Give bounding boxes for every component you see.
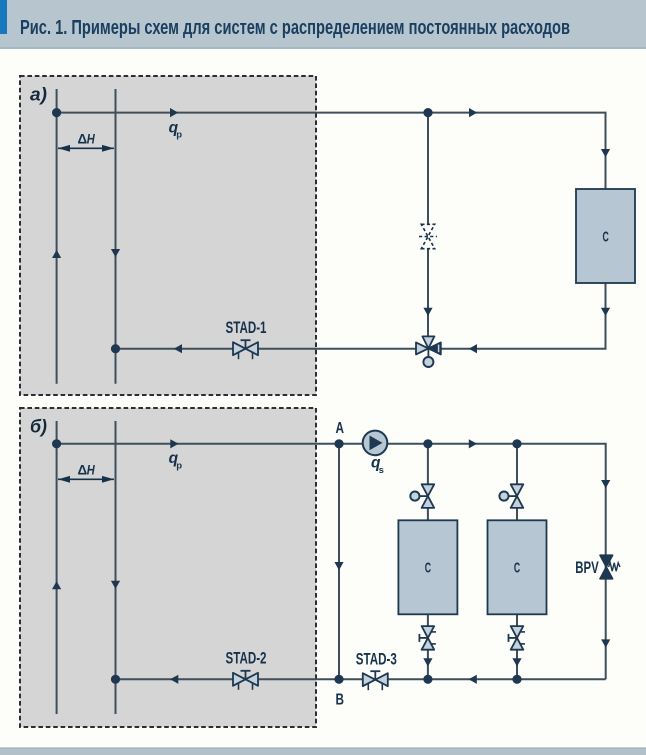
dH dimension arrow b	[58, 476, 114, 483]
stad valve branch 2	[509, 626, 526, 650]
wire: branch riser a lower	[427, 249, 429, 349]
svg-text:B: B	[336, 692, 345, 709]
wire: second riser b	[115, 421, 117, 714]
node: branch tee a	[423, 108, 432, 117]
valve STAD-3	[363, 671, 388, 690]
valve STAD-2	[233, 671, 258, 690]
wire: branch riser a upper	[427, 113, 429, 224]
flow arrow up left riser b	[52, 581, 61, 589]
node: branch2 bottom tee	[512, 675, 521, 684]
svg-text:H: H	[87, 462, 95, 477]
svg-text:STAD-2: STAD-2	[226, 648, 267, 667]
svg-text:s: s	[379, 465, 384, 476]
wire: left riser a	[56, 89, 58, 384]
wire: return pipe b	[116, 678, 606, 680]
svg-text:C: C	[425, 560, 431, 577]
node: return junction a	[111, 344, 120, 353]
node: branch1 top tee	[423, 439, 432, 448]
panel b background	[20, 408, 316, 727]
svg-text:C: C	[514, 560, 520, 577]
pump b	[363, 431, 388, 456]
flow arrow supply b (right)	[469, 439, 477, 448]
three-way valve a	[416, 336, 441, 367]
flow arrow down second riser b	[111, 581, 120, 589]
control valve branch 2	[499, 484, 523, 508]
svg-text:STAD-3: STAD-3	[356, 649, 397, 668]
consumer C box b1	[398, 520, 457, 614]
flow arrow down branch 2	[512, 658, 521, 666]
node: supply junction b	[52, 439, 61, 448]
flow arrow return b (right)	[469, 675, 477, 684]
svg-text:б): б)	[30, 417, 47, 437]
valve BPV	[600, 555, 620, 579]
svg-text:BPV: BPV	[575, 558, 599, 577]
wire: supply pipe b	[57, 444, 606, 680]
wire: supply pipe a	[57, 113, 606, 189]
svg-text:A: A	[336, 420, 345, 437]
control valve branch 1	[410, 484, 434, 508]
consumer C box b2	[488, 520, 547, 614]
flow arrow down branch 1	[423, 658, 432, 666]
flow arrow supply b (in panel)	[170, 439, 178, 448]
node: supply junction a	[52, 108, 61, 117]
svg-text:р: р	[176, 130, 182, 141]
svg-text:C: C	[603, 229, 609, 246]
wire: branch riser 2	[516, 444, 518, 680]
node: branch1 bottom tee	[423, 675, 432, 684]
node: branch2 top tee	[512, 439, 521, 448]
flow arrow down second riser a	[111, 249, 120, 257]
svg-text:а): а)	[30, 85, 47, 105]
valve STAD-1	[233, 340, 258, 359]
wire: left riser b	[56, 421, 58, 714]
node B	[334, 675, 343, 684]
flow arrow down right riser b (bottom)	[601, 639, 610, 647]
node A	[334, 439, 343, 448]
flow arrow down A-B riser	[334, 562, 343, 570]
dashed future valve a	[419, 224, 437, 248]
stad valve branch 1	[419, 626, 436, 650]
flow arrow return a (in panel)	[174, 344, 182, 353]
panel a background	[20, 76, 316, 395]
header strip	[0, 0, 646, 49]
node: return junction b	[111, 675, 120, 684]
flow arrow down right riser a	[601, 149, 610, 157]
flow arrow return b (in panel)	[170, 675, 178, 684]
footer strip	[0, 748, 646, 755]
flow arrow down below C a	[601, 308, 610, 316]
flow arrow supply a (right)	[469, 108, 477, 117]
svg-text:STAD-1: STAD-1	[226, 318, 267, 337]
dH dimension arrow a	[58, 145, 114, 152]
wire: second riser a	[115, 89, 117, 384]
wire: return pipe a	[116, 283, 606, 349]
svg-text:H: H	[87, 131, 95, 146]
flow arrow down right riser b (top)	[601, 480, 610, 488]
svg-text:Рис. 1. Примеры схем для систе: Рис. 1. Примеры схем для систем с распре…	[20, 17, 570, 39]
flow arrow down branch a	[423, 308, 432, 316]
flow arrow up left riser a	[52, 250, 61, 258]
flow arrow return a (right)	[469, 344, 477, 353]
wire: A-B riser	[338, 444, 340, 680]
blue bar	[0, 0, 7, 34]
wire: branch riser 1	[427, 444, 429, 680]
svg-text:р: р	[176, 460, 182, 471]
flow arrow supply a (in panel)	[170, 108, 178, 117]
header bottom edge	[0, 47, 646, 49]
consumer C box a	[576, 189, 635, 283]
